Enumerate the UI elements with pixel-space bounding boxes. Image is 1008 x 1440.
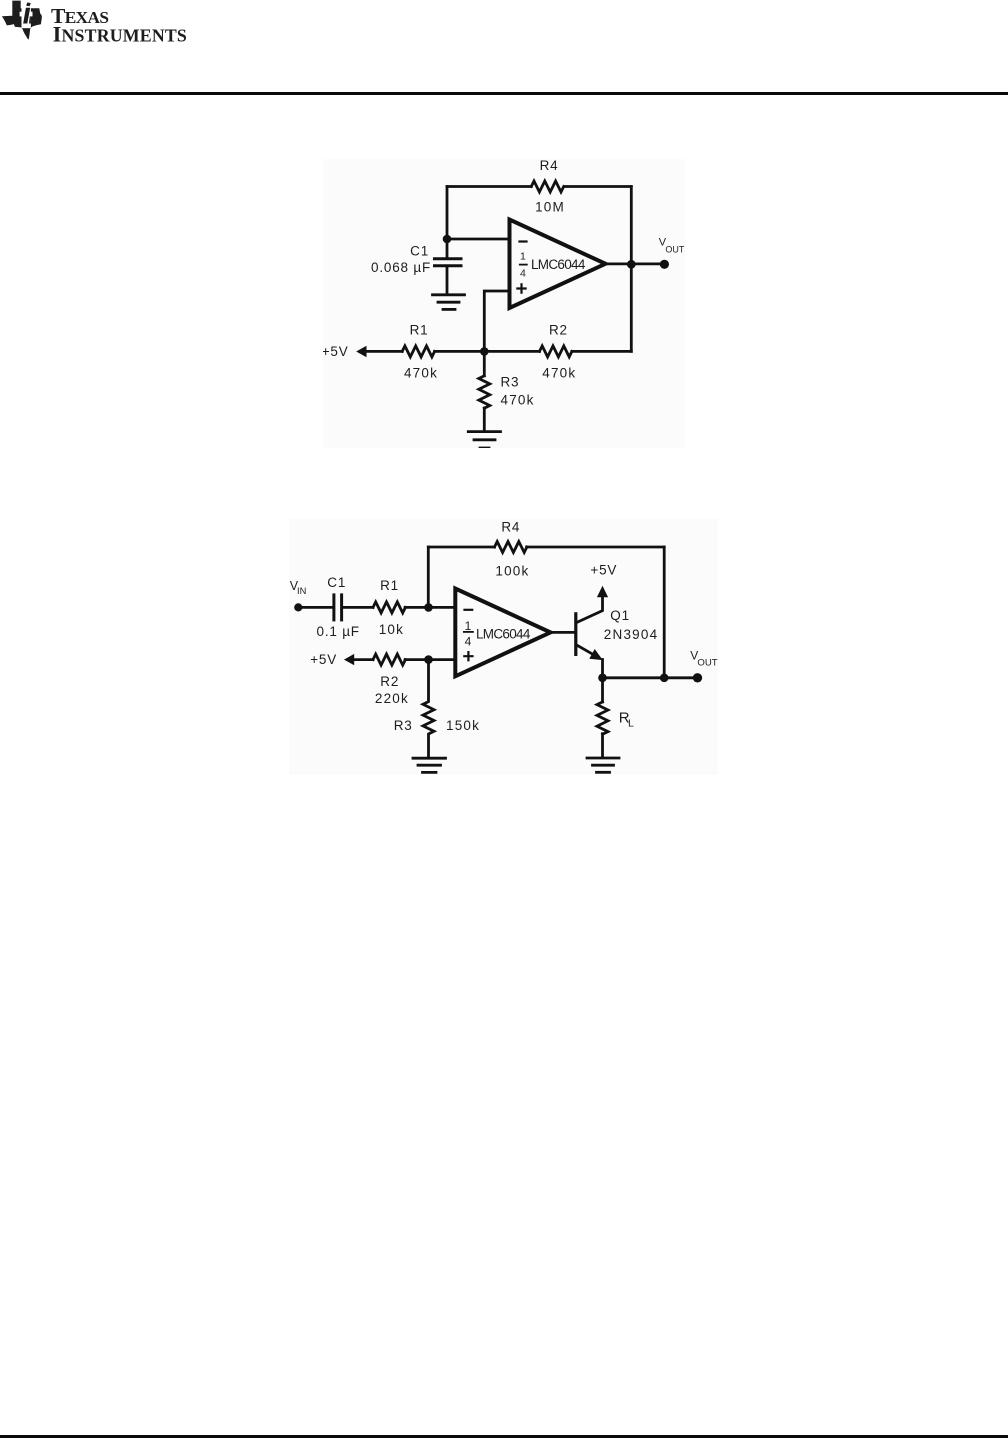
labels xyxy=(290,520,718,733)
plus sign xyxy=(464,652,472,660)
wire R1 to node xyxy=(435,350,540,353)
svg-text:R2: R2 xyxy=(380,674,399,689)
svg-text:R1: R1 xyxy=(410,323,429,338)
fraction bar xyxy=(464,631,473,633)
wire node to R3 xyxy=(483,351,486,375)
resistor R3 vertical xyxy=(423,660,434,758)
wire top left xyxy=(428,546,494,549)
black i stroke xyxy=(23,8,30,24)
svg-text:L: L xyxy=(628,718,635,730)
svg-text:10k: 10k xyxy=(379,622,404,637)
emitter arrowhead xyxy=(589,649,603,660)
terminal dot VOUT xyxy=(693,673,702,682)
svg-text:+5V: +5V xyxy=(310,652,337,667)
texas state silhouette xyxy=(2,1,42,40)
svg-text:+5V: +5V xyxy=(323,344,349,359)
svg-text:LMC6044: LMC6044 xyxy=(476,627,531,642)
arrow +5V up at Q1 xyxy=(597,586,608,598)
plus sign xyxy=(517,284,525,292)
output wire to Q1 base xyxy=(551,631,575,634)
output wire xyxy=(606,262,661,265)
resistor R4 xyxy=(531,181,563,192)
wire R3 to ground xyxy=(483,408,486,430)
wire +5V to R2 xyxy=(353,658,373,661)
ground below R3 xyxy=(468,430,500,433)
node dot inverting xyxy=(424,603,433,612)
node dot output xyxy=(627,260,636,269)
svg-text:R3: R3 xyxy=(501,375,520,390)
svg-text:470k: 470k xyxy=(542,366,576,381)
svg-text:4: 4 xyxy=(520,268,527,280)
svg-text:Q1: Q1 xyxy=(610,608,630,623)
terminal dot VOUT xyxy=(660,260,669,269)
op-amp U1 triangle xyxy=(510,220,606,309)
wire C1 to R1 xyxy=(343,606,373,609)
svg-text:1: 1 xyxy=(520,250,527,262)
svg-text:OUT: OUT xyxy=(697,657,717,668)
wire R2 to right vertical xyxy=(572,350,631,353)
arrow +5V left xyxy=(344,654,354,665)
resistor R2 xyxy=(540,346,572,357)
ground below RL xyxy=(587,757,619,760)
svg-text:INSTRUMENTS: INSTRUMENTS xyxy=(53,22,187,47)
resistor R1 xyxy=(373,602,405,613)
wire to inverting input xyxy=(447,238,510,241)
svg-text:10M: 10M xyxy=(535,200,565,215)
svg-text:4: 4 xyxy=(465,634,472,648)
svg-text:R1: R1 xyxy=(380,578,399,593)
svg-text:R4: R4 xyxy=(540,159,559,173)
minus sign xyxy=(520,240,527,242)
wire R1 to op-amp xyxy=(405,606,455,609)
wire top right xyxy=(565,185,632,188)
node dot emitter xyxy=(598,674,607,683)
black t right bump xyxy=(29,16,31,23)
top rule xyxy=(0,92,1008,95)
svg-text:C1: C1 xyxy=(327,575,346,590)
labels xyxy=(322,158,685,407)
white t carve xyxy=(22,8,31,29)
Q1 collector xyxy=(577,598,602,623)
svg-text:R4: R4 xyxy=(501,520,520,535)
svg-text:1: 1 xyxy=(465,619,472,633)
wire emitter node to VOUT xyxy=(603,676,698,679)
wire node to RL xyxy=(601,678,604,702)
svg-text:LMC6044: LMC6044 xyxy=(531,257,586,272)
node dot noninverting xyxy=(424,655,433,664)
wire RL to ground xyxy=(601,734,604,757)
wire top left xyxy=(447,185,531,188)
wire VIN to C1 xyxy=(298,606,332,609)
svg-text:IN: IN xyxy=(297,586,306,596)
svg-text:OUT: OUT xyxy=(665,245,685,255)
svg-text:+5V: +5V xyxy=(590,563,617,578)
svg-text:2N3904: 2N3904 xyxy=(604,627,659,642)
terminal dot VIN xyxy=(294,603,302,611)
capacitor C1 plates xyxy=(332,595,335,620)
right vertical xyxy=(663,547,666,678)
node dot R1/R2/R3 xyxy=(480,347,489,356)
svg-text:0.068 µF: 0.068 µF xyxy=(371,260,431,275)
resistor R1 xyxy=(402,346,434,357)
Q1 base bar xyxy=(574,614,577,655)
wire left vertical xyxy=(446,187,449,240)
svg-text:150k: 150k xyxy=(446,718,480,733)
ground below R3 xyxy=(413,757,446,760)
svg-text:R2: R2 xyxy=(549,323,568,338)
capacitor C1 xyxy=(446,239,449,257)
svg-text:R3: R3 xyxy=(394,718,413,733)
wire noninverting input xyxy=(484,291,509,351)
resistor R4 xyxy=(495,542,527,553)
wire right vertical xyxy=(630,187,633,352)
i dot xyxy=(26,3,31,7)
node dot C1 xyxy=(443,235,452,244)
svg-text:220k: 220k xyxy=(375,691,409,706)
ground below C1 xyxy=(433,293,465,296)
svg-text:C1: C1 xyxy=(410,244,429,259)
svg-text:0.1 µF: 0.1 µF xyxy=(317,624,360,639)
resistor R2 xyxy=(373,654,405,665)
Q1 emitter xyxy=(577,646,598,658)
arrow +5V xyxy=(356,346,366,357)
op-amp U2 triangle xyxy=(455,589,550,677)
bottom rule xyxy=(0,1435,1008,1438)
left vertical xyxy=(427,547,430,607)
wire +5V rail xyxy=(365,350,402,353)
minus sign xyxy=(465,609,473,611)
resistor R3 vertical xyxy=(479,376,490,408)
TI logo (Texas state + ti) xyxy=(0,0,200,50)
svg-text:470k: 470k xyxy=(404,366,438,381)
fraction bar xyxy=(520,264,527,266)
wire R2 to op-amp xyxy=(405,658,455,661)
resistor RL vertical xyxy=(597,702,608,734)
node dot feedback xyxy=(660,674,669,683)
wire top right xyxy=(527,546,665,549)
svg-text:100k: 100k xyxy=(495,564,529,579)
svg-text:470k: 470k xyxy=(501,392,535,407)
